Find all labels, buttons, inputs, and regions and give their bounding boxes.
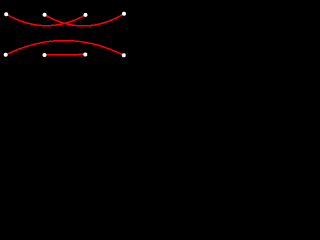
- node D4: [122, 12, 126, 16]
- wire edge D1-D3 sagging curve: [6, 14, 85, 25]
- node D3: [84, 13, 88, 17]
- node D2: [43, 13, 47, 17]
- wire edge D6-D7 straight: [45, 53, 86, 56]
- node D6: [43, 53, 47, 57]
- node D8: [122, 53, 126, 57]
- background: [0, 0, 131, 91]
- node D1: [4, 12, 8, 16]
- node D5: [4, 53, 8, 57]
- node D7: [83, 53, 87, 57]
- wire edge D5-D8 arch curve: [6, 40, 124, 55]
- wire edge D2-D4 sagging curve: [45, 14, 124, 26]
